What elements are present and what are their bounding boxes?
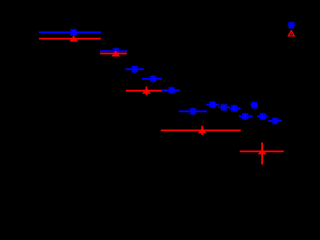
legend blue marker <box>288 22 295 29</box>
blue errorbar B2 <box>100 50 127 52</box>
blue marker B6 <box>189 108 196 115</box>
red errorbar R3 <box>126 87 162 96</box>
red marker R1 <box>71 37 76 41</box>
blue errorbar B7 <box>206 104 219 106</box>
red errorbar R5 <box>240 143 284 165</box>
blue errorbar B1 <box>39 31 101 33</box>
blue errorbar B10 <box>239 115 253 117</box>
blue errorbar B3 <box>126 68 144 70</box>
blue errorbar B8 <box>218 106 230 108</box>
blue errorbar B11 <box>251 104 257 106</box>
legend red errorbar tick <box>290 33 292 34</box>
red marker R3 <box>144 89 149 93</box>
blue marker B7 <box>209 101 216 108</box>
red errorbar R4 <box>161 126 241 135</box>
blue errorbar B6 <box>179 110 207 112</box>
blue marker B8 <box>220 104 227 111</box>
blue errorbar B12 <box>257 115 268 117</box>
blue marker B3 <box>131 66 138 73</box>
blue marker B10 <box>242 113 249 120</box>
red marker R4 <box>200 129 205 133</box>
blue marker B4 <box>150 75 157 82</box>
blue marker B11 <box>251 101 258 108</box>
blue marker B1 <box>70 29 77 36</box>
red errorbar R2 <box>100 52 127 56</box>
blue errorbar B13 <box>268 120 282 122</box>
blue marker B12 <box>259 113 266 120</box>
blue errorbar B5 <box>162 89 180 91</box>
blue marker B9 <box>231 105 238 112</box>
red marker R5 <box>259 150 264 154</box>
blue errorbar B9 <box>229 107 240 109</box>
blue marker B2 <box>112 48 119 55</box>
blue marker B13 <box>272 117 279 124</box>
red errorbar R1 <box>39 36 101 41</box>
blue marker B5 <box>168 87 175 94</box>
blue errorbar B4 <box>142 78 162 80</box>
red marker R2 <box>113 52 118 56</box>
legend red marker <box>288 31 294 36</box>
